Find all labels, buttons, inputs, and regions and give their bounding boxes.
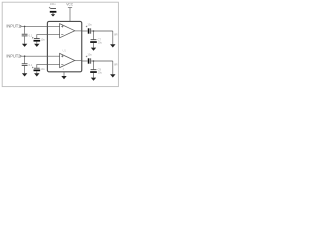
node junction on input2 wire	[24, 55, 26, 57]
border frame	[2, 2, 118, 86]
VCC power flag	[66, 3, 74, 8]
ground load A	[110, 44, 115, 47]
svg-text:VCC: VCC	[66, 3, 74, 7]
ground under C3	[34, 44, 39, 47]
svg-text:10u: 10u	[87, 23, 92, 27]
op-amp B inverting -	[61, 63, 63, 65]
op-amp B triangle	[60, 53, 75, 67]
op-amp B noninverting +	[61, 55, 63, 57]
capacitor C9 junction B to ground	[90, 61, 102, 78]
ground under C4	[22, 73, 27, 76]
INPUT2 terminal	[20, 55, 22, 57]
op-amp IC U1 body	[47, 21, 81, 71]
op-amp A output stub to IC edge	[75, 30, 82, 32]
wire cap to junction A	[91, 30, 113, 32]
op-amp A noninverting +	[61, 25, 63, 27]
op-amp A inverting -	[61, 34, 63, 36]
svg-text:10u: 10u	[98, 40, 103, 44]
output wire op-amp B	[82, 60, 88, 62]
load wire A down	[112, 31, 114, 44]
svg-text:10u: 10u	[98, 70, 103, 74]
ground under C5	[34, 73, 39, 76]
output wire op-amp A	[82, 30, 88, 32]
svg-text:8R: 8R	[114, 62, 117, 66]
INPUT1 terminal	[20, 25, 22, 27]
svg-text:U1: U1	[63, 49, 67, 53]
op-amp B output stub to IC edge	[75, 60, 82, 62]
svg-text:10u: 10u	[40, 38, 45, 42]
wire cap to junction B	[91, 60, 113, 62]
capacitor C7 junction A to ground	[90, 31, 102, 48]
wire INPUT1 to IC pin	[22, 25, 48, 27]
op-amp B input pin stubs inside IC	[48, 56, 60, 64]
node junction B	[93, 60, 95, 62]
svg-text:INPUT2: INPUT2	[6, 53, 21, 58]
feedback capacitor C5 op-amp B	[32, 64, 48, 73]
ground under C9	[91, 78, 96, 81]
svg-text:10u: 10u	[87, 53, 92, 57]
ground under C1	[51, 14, 55, 16]
svg-text:100u: 100u	[50, 2, 56, 6]
node junction on input1 wire	[24, 26, 26, 28]
feedback capacitor C3 op-amp A	[32, 35, 48, 44]
load wire B down	[112, 61, 114, 74]
op-amp A input pin stubs inside IC	[48, 26, 60, 34]
coupling capacitor C6 output A	[86, 23, 92, 34]
svg-text:0.1: 0.1	[29, 63, 33, 67]
node junction A	[93, 30, 95, 32]
capacitor C4 input2 to ground	[22, 56, 33, 73]
ground symbol pin 4	[61, 76, 66, 79]
decoupling capacitor C1 above IC	[49, 2, 56, 14]
ground pin 4 below IC	[63, 72, 65, 76]
capacitor C2 input1 to ground	[22, 26, 33, 43]
wire VCC to IC pin 2	[69, 8, 71, 22]
svg-text:10u: 10u	[40, 67, 45, 71]
svg-text:0.1: 0.1	[29, 33, 33, 37]
svg-text:INPUT1: INPUT1	[6, 24, 21, 29]
ground under C7	[91, 48, 96, 51]
op-amp A triangle	[60, 24, 75, 38]
wire INPUT2 to IC pin	[22, 55, 48, 57]
svg-text:8R: 8R	[114, 32, 117, 36]
ground load B	[110, 74, 115, 77]
coupling capacitor C8 output B	[86, 53, 92, 64]
ground under C2	[22, 44, 27, 47]
